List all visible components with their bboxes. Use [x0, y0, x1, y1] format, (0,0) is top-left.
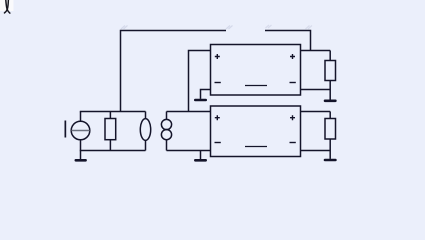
- wire source top lead: [80, 112, 82, 122]
- current source bar: [71, 130, 89, 132]
- clipped letter X: [5, 0, 10, 13]
- N1 plus left: [215, 54, 220, 59]
- wire W1 top horizontal: [121, 31, 227, 112]
- resistor R2: [325, 51, 336, 100]
- resistor R1: [105, 112, 116, 151]
- wire primary bottom lead: [145, 140, 147, 150]
- faint mark at W2 corner: [306, 26, 313, 30]
- N2 minus right: [290, 142, 296, 144]
- wire primary top lead: [145, 112, 147, 119]
- faint mark at W1 corner: [121, 26, 128, 30]
- N1 plus right: [290, 54, 295, 59]
- N2 plus right: [290, 115, 295, 120]
- N2 dash: [245, 146, 267, 148]
- N2 plus left: [215, 115, 220, 120]
- wire N1 minus-left pin to ground: [201, 90, 211, 99]
- label I: [65, 121, 67, 138]
- ground under source: [75, 151, 87, 162]
- N1 minus right: [290, 82, 296, 84]
- current source I1: [71, 121, 90, 140]
- label background (white corner patch): [0, 0, 14, 11]
- two-port N1 (top box): [211, 45, 301, 96]
- wire N1 plus-right pin: [301, 50, 331, 52]
- wire N2 minus-right pin: [301, 150, 331, 152]
- wire N2 plus-right pin: [301, 111, 331, 113]
- wire input bottom rail: [80, 150, 146, 152]
- N1 dash: [245, 85, 267, 87]
- ground at R2: [324, 100, 337, 103]
- wire secondary top rail: [167, 111, 211, 113]
- wire N1 minus-right pin: [301, 89, 331, 91]
- faint mark at W1 end: [226, 26, 233, 30]
- ground at R3: [324, 159, 337, 162]
- ground at secondary bottom: [194, 151, 207, 162]
- inductor L1 primary: [140, 119, 150, 141]
- resistor R3: [325, 112, 336, 159]
- wire input top rail: [80, 111, 146, 113]
- wire secondary bottom rail: [167, 150, 211, 152]
- wire secondary bottom lead: [166, 140, 168, 151]
- ground at N1 left: [194, 99, 207, 102]
- two-port N2 (bottom box): [211, 106, 301, 157]
- faint mark at W2 start: [266, 25, 272, 28]
- wire W2 top horizontal: [265, 31, 311, 51]
- wire source bottom lead: [80, 140, 82, 151]
- N1 minus left: [215, 82, 221, 84]
- inductor L2 secondary: [161, 119, 171, 139]
- wire secondary top lead: [166, 112, 168, 120]
- N2 minus left: [215, 142, 221, 144]
- wire riser to top box plus: [189, 51, 211, 112]
